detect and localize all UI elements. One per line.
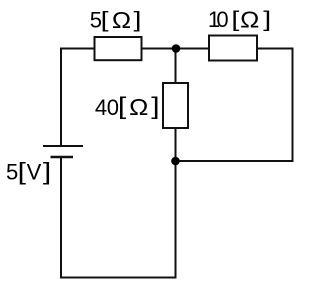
svg-text:[: [ (101, 8, 109, 32)
resistor R2 10[Ohm] body (209, 36, 257, 61)
wire: top-left horizontal from corner to R1 (60, 48, 95, 50)
svg-text:V: V (27, 160, 42, 185)
svg-text:]: ] (43, 157, 51, 184)
node A junction dot (172, 44, 181, 53)
wire: R1 right to node A (141, 48, 176, 50)
wire: left vertical lower (battery to bottom corner) (60, 157, 62, 279)
wire: R3 bottom through node B down to bottom wire (175, 128, 177, 279)
svg-text:]: ] (133, 8, 141, 32)
resistor R3 40[Ohm] body (163, 83, 188, 128)
svg-text:[: [ (18, 157, 27, 184)
battery 5[V]: short plate (51, 156, 74, 158)
node B junction dot (171, 157, 180, 166)
label 10[Ohm] (208, 7, 271, 33)
wire: node A down to R3 top (175, 49, 177, 84)
label 5[Ohm] (90, 8, 142, 34)
svg-text:[: [ (118, 92, 127, 119)
label 5[V] (6, 157, 51, 184)
svg-text:Ω: Ω (240, 8, 259, 33)
svg-text:Ω: Ω (129, 95, 148, 120)
label 40[Ohm] (95, 92, 160, 121)
svg-text:[: [ (231, 7, 239, 31)
wire: right vertical (292, 48, 294, 163)
svg-text:4: 4 (95, 95, 107, 120)
svg-text:5: 5 (6, 160, 18, 185)
resistor R1 5[Ohm] body (95, 37, 142, 60)
svg-text:Ω: Ω (112, 8, 131, 33)
svg-text:]: ] (151, 92, 159, 119)
wire: R2 right to top-right corner (257, 48, 294, 50)
wire: bottom horizontal (60, 277, 177, 279)
wire: node A to R2 left (176, 48, 209, 50)
battery 5[V]: long plate (43, 145, 83, 147)
svg-text:]: ] (263, 7, 271, 31)
wire: lower horizontal from right corner to node B (176, 160, 293, 162)
svg-text:0: 0 (216, 7, 228, 32)
wire: left vertical upper (top corner to battery) (60, 48, 62, 147)
